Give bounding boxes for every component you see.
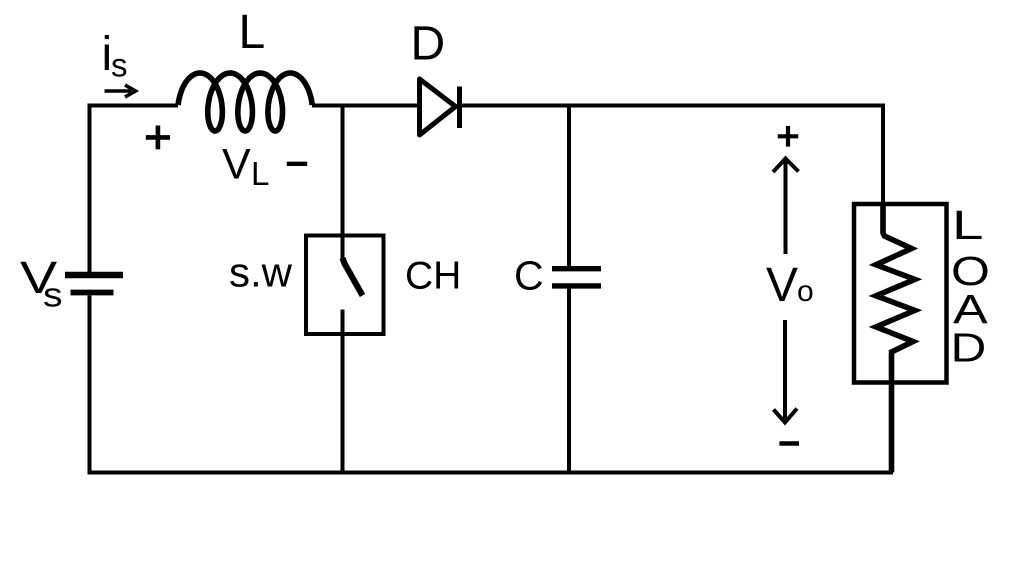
wire bottom rail — [88, 471, 894, 475]
wire top-left from source to inductor — [90, 106, 179, 273]
inductor L — [178, 73, 312, 131]
minus sign right — [779, 441, 799, 446]
svg-text:s.w: s.w — [229, 248, 293, 295]
svg-text:D: D — [951, 325, 987, 371]
battery Vs top plate — [65, 272, 123, 278]
battery Vs bottom plate — [71, 290, 114, 296]
minus sign VL — [287, 162, 307, 166]
arrow Vo down — [774, 320, 798, 423]
switch lower contact and wire to bottom — [341, 310, 345, 473]
svg-text:D: D — [411, 18, 446, 71]
wire diode to top-right corner — [460, 106, 884, 205]
svg-text:V: V — [222, 141, 251, 189]
capacitor C bottom plate — [552, 283, 601, 288]
switch blade — [343, 258, 363, 296]
svg-text:o: o — [797, 275, 814, 308]
switch box CH — [306, 236, 384, 335]
svg-text:L: L — [251, 155, 269, 192]
svg-text:CH: CH — [405, 254, 461, 297]
svg-text:L: L — [952, 202, 983, 248]
svg-text:L: L — [239, 6, 266, 59]
arrow is current — [105, 85, 136, 97]
wire source bottom — [88, 296, 92, 473]
svg-text:V: V — [766, 259, 798, 312]
plus sign right — [778, 126, 798, 147]
capacitor C top plate — [552, 266, 601, 271]
svg-text:s: s — [111, 47, 128, 84]
wire capacitor to bottom — [567, 288, 571, 473]
svg-text:s: s — [43, 276, 63, 314]
svg-text:C: C — [514, 252, 544, 298]
diode D — [420, 79, 460, 135]
arrow Vo up — [773, 159, 799, 255]
wire inductor to diode — [312, 104, 419, 108]
wire capacitor branch upper — [567, 106, 571, 268]
plus sign left — [146, 126, 170, 150]
wire switch branch upper — [341, 106, 345, 262]
LOAD box — [854, 204, 947, 383]
resistor zigzag in LOAD — [876, 204, 915, 473]
